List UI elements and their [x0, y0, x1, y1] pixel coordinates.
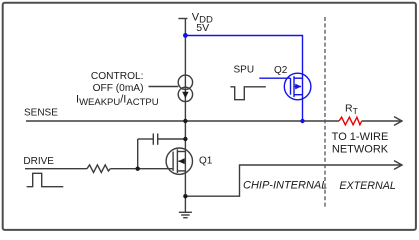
svg-text:Q2: Q2 [274, 65, 288, 76]
blue SPU circuit [185, 36, 311, 122]
svg-text:CHIP-INTERNAL: CHIP-INTERNAL [243, 180, 327, 192]
transistor Q1 gate bar [172, 152, 174, 171]
node blue dot VDD [183, 33, 188, 38]
wire capacitor branch left [138, 138, 154, 140]
ground symbol [179, 211, 192, 213]
wire Q2 gate lead [259, 77, 290, 79]
SPU pulse waveform [230, 87, 265, 100]
capacitor C1 plates [152, 134, 154, 145]
svg-text:OFF (0mA): OFF (0mA) [93, 83, 144, 94]
transistor Q2 drain stub [294, 94, 303, 96]
node blue dot SENSE/Q2 [300, 119, 304, 123]
transistor Q2 bulk arrow [295, 84, 301, 90]
svg-text:SPU: SPU [234, 65, 255, 76]
current source I1 circles [178, 75, 192, 89]
transistor Q1 bulk arrow [178, 158, 184, 164]
arrowhead SENSE to 1-wire [394, 117, 402, 126]
transistor Q1 drain stub [177, 151, 185, 153]
transistor Q2 bulk stub [294, 86, 301, 88]
svg-text:SENSE: SENSE [24, 108, 58, 119]
current source arrow [182, 92, 188, 99]
transistor Q1 bulk stub [178, 160, 185, 162]
svg-text:EXTERNAL: EXTERNAL [339, 180, 395, 192]
wire ground to external corner [185, 165, 401, 196]
wire VDD vertical to current source and SENSE [184, 19, 186, 122]
svg-text:DRIVE: DRIVE [23, 156, 54, 167]
resistor R1 zigzag [87, 165, 110, 173]
wire SENSE line right of RT to arrow [362, 120, 401, 122]
transistor Q1 source stub [177, 170, 185, 172]
wire SENSE line left [26, 120, 339, 122]
node junction dot capacitor to drain [183, 137, 187, 141]
svg-text:NETWORK: NETWORK [332, 144, 389, 156]
arrowhead external bottom [394, 161, 402, 170]
node junction dot ground [183, 194, 187, 198]
svg-text:Q1: Q1 [199, 156, 213, 167]
dashed separator chip-internal/external [324, 17, 326, 207]
node junction dot on SENSE at current source [183, 119, 187, 123]
wire ground stem [184, 196, 186, 212]
transistor Q2 channel bar [293, 76, 295, 97]
wire capacitor branch right [158, 138, 186, 140]
DRIVE pulse waveform [27, 173, 64, 186]
wire Q1 drain vertical (SENSE to ground) [184, 121, 186, 196]
transistor Q2 source stub [294, 77, 303, 79]
wire capacitor branch vertical [137, 139, 139, 169]
node junction dot DRIVE/cap [136, 167, 140, 171]
transistor Q2 circle [284, 73, 311, 100]
wire resistor to Q1 gate [110, 168, 173, 170]
wire DRIVE line to resistor [25, 168, 87, 170]
wire blue VDD to Q2 [185, 36, 302, 122]
svg-text:CONTROL:: CONTROL: [91, 71, 144, 82]
VDD supply tick [178, 18, 187, 20]
wire control to current source [149, 86, 179, 88]
svg-text:TO 1-WIRE: TO 1-WIRE [332, 131, 389, 143]
resistor RT red zigzag [339, 117, 362, 125]
transistor Q1 channel bar [176, 149, 178, 173]
transistor Q2 gate bar [290, 78, 292, 95]
transistor Q1 circle [166, 148, 192, 174]
svg-text:5V: 5V [196, 22, 209, 34]
